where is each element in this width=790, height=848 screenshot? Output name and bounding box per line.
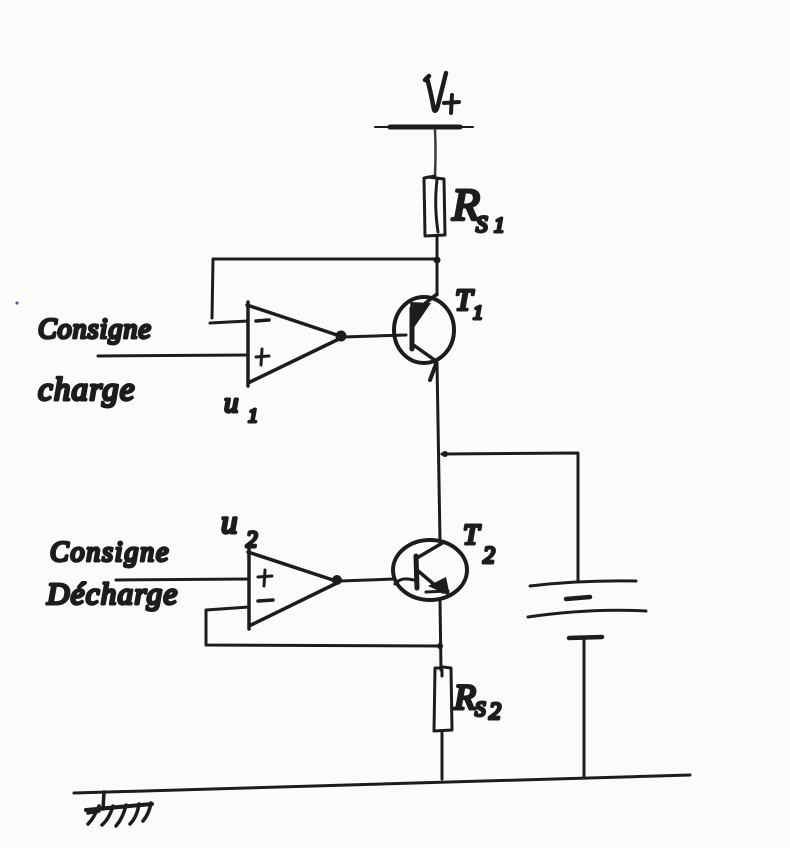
- wire U2 output to T2 base: [340, 579, 394, 581]
- svg-text:2: 2: [489, 699, 501, 725]
- wire U1 feedback (output rail to inverting input): [210, 259, 437, 323]
- svg-text:S: S: [475, 697, 486, 721]
- label U2: [221, 505, 258, 552]
- label T2: [463, 519, 495, 569]
- ground rail: [74, 775, 690, 793]
- svg-text:1: 1: [473, 302, 483, 324]
- label T1: [455, 282, 483, 324]
- wire U1 output to T1 base: [343, 335, 406, 337]
- U2 inverting input pin -: [258, 600, 273, 601]
- wire RS2 to ground rail: [441, 733, 444, 779]
- stray ink dot: [15, 301, 18, 304]
- label RS1: [451, 179, 505, 237]
- wire U2 feedback (inverting input to emitter rail): [206, 607, 440, 646]
- wire T2 emitter to RS2: [440, 600, 441, 670]
- wire T1 emitter to T2 collector: [437, 363, 440, 541]
- label Consigne charge: [38, 314, 152, 408]
- svg-text:Consigne: Consigne: [50, 537, 170, 568]
- junction U1 output dot: [336, 331, 347, 342]
- wire RS1 to T1 collector: [436, 237, 439, 295]
- svg-text:u: u: [224, 387, 239, 419]
- svg-text:u: u: [221, 505, 238, 541]
- resistor RS2: [434, 667, 452, 731]
- junction node feedback/RS1: [434, 257, 441, 264]
- svg-text:Consigne: Consigne: [38, 314, 152, 345]
- svg-text:charge: charge: [38, 372, 136, 408]
- svg-text:2: 2: [483, 543, 495, 569]
- node V+ label: [425, 73, 459, 113]
- junction U2 output dot: [332, 575, 342, 585]
- wire consigne decharge to U2 + input: [116, 579, 249, 580]
- battery B1 middle short plate: [566, 597, 590, 599]
- transistor T2: [393, 540, 467, 600]
- svg-text:T: T: [455, 282, 475, 317]
- junction node feedback/RS2: [437, 643, 443, 649]
- svg-text:T: T: [463, 519, 481, 551]
- label RS2: [453, 677, 501, 725]
- battery B1 top long plate: [530, 581, 636, 586]
- power rail V+: [375, 125, 473, 130]
- label U1: [224, 387, 258, 427]
- ground symbol: [86, 792, 152, 826]
- battery B1 bottom short plate: [569, 637, 602, 638]
- transistor T1: [394, 294, 454, 380]
- wire V+ rail to RS1: [434, 130, 437, 176]
- resistor RS1: [424, 176, 445, 236]
- battery B1 second long plate: [528, 610, 646, 617]
- wire battery negative to ground rail: [583, 640, 586, 776]
- svg-text:S: S: [476, 212, 488, 237]
- svg-text:Décharge: Décharge: [46, 576, 178, 611]
- label Consigne Decharge: [46, 537, 178, 611]
- U2 non-inverting input pin +: [258, 570, 272, 586]
- op-amp U2: [248, 549, 337, 629]
- U1 inverting input pin -: [256, 320, 269, 321]
- svg-text:R: R: [453, 677, 476, 717]
- op-amp U1: [247, 302, 341, 386]
- U1 non-inverting input pin +: [256, 349, 269, 365]
- wire node to battery positive: [442, 451, 578, 581]
- wire consigne charge to U1 + input: [98, 355, 248, 356]
- svg-text:1: 1: [494, 213, 505, 237]
- svg-text:1: 1: [248, 405, 258, 427]
